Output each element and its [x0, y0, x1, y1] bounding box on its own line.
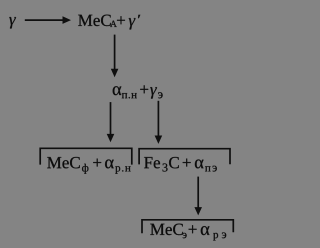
wire arrow MeCA down to alpha row: [111, 35, 119, 78]
wire arrow right box down to bottom box: [194, 177, 202, 216]
wire arrow alpha row down to right box: [155, 101, 163, 144]
arrow gamma to MeCA: [25, 16, 71, 24]
node MeC_f + alpha_r.n (left box): [47, 157, 130, 174]
bracket of left box: [40, 148, 132, 164]
bracket of right box: [139, 149, 230, 165]
node alpha_p.n + gamma_e (transition phase): [113, 85, 163, 98]
node MeCA + gamma-prime: [78, 15, 140, 30]
node MeC_e + alpha_re (bottom box): [150, 224, 226, 241]
wire arrow alpha row down to left box: [107, 102, 115, 142]
node gamma (austenite start phase): [9, 17, 16, 28]
node Fe3C + alpha_pe (right box): [144, 157, 217, 172]
bracket of bottom box: [142, 220, 233, 234]
